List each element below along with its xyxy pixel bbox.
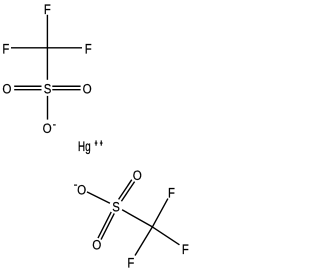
double bond S1=O right bbox=[52, 86, 80, 89]
svg-text:O: O bbox=[2, 80, 11, 96]
svg-text:S: S bbox=[112, 198, 120, 215]
svg-text:O: O bbox=[83, 80, 92, 96]
svg-text:O: O bbox=[92, 237, 101, 253]
svg-text:S: S bbox=[44, 80, 52, 97]
svg-text:O: O bbox=[43, 120, 52, 136]
bond S1-O bottom bbox=[47, 96, 49, 120]
bond S2-C2 bbox=[122, 210, 152, 227]
svg-text:F: F bbox=[168, 184, 175, 201]
svg-text:F: F bbox=[182, 241, 189, 258]
minus charge on O anion 2 bbox=[74, 184, 77, 186]
double bond S1=O left bbox=[14, 86, 41, 89]
double bond S2=O lower-left bbox=[98, 212, 114, 240]
bond C2-F3 bbox=[135, 227, 152, 256]
bond C2-F1 bbox=[152, 199, 168, 227]
svg-text:Hg: Hg bbox=[78, 138, 91, 154]
svg-text:F: F bbox=[2, 40, 9, 57]
svg-text:F: F bbox=[127, 254, 134, 270]
bond C1-S1 bbox=[46, 48, 48, 80]
bond O2-S2 bbox=[87, 192, 110, 203]
double bond S2=O top bbox=[119, 180, 135, 202]
svg-text:O: O bbox=[133, 167, 142, 183]
minus charge on O bottom bbox=[53, 124, 56, 126]
svg-text:F: F bbox=[44, 1, 51, 18]
bond C1-F top bbox=[46, 15, 48, 48]
svg-text:O: O bbox=[77, 182, 86, 198]
bond C1-F right bbox=[47, 47, 82, 49]
charge ++ on Hg bbox=[95, 140, 103, 145]
svg-text:F: F bbox=[85, 40, 92, 57]
bond F left-C1 bbox=[11, 47, 47, 49]
bond C2-F2 bbox=[152, 227, 179, 245]
